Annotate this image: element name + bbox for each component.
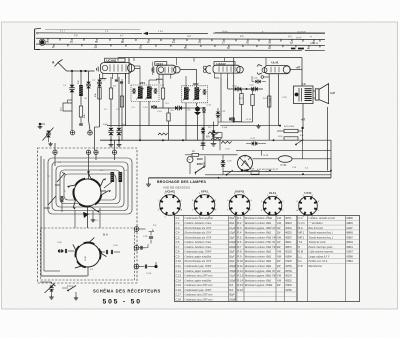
svg-text:Resistance carbone 10kΩ: Resistance carbone 10kΩ [244, 279, 271, 282]
svg-text:45304: 45304 [346, 242, 353, 244]
AC mains source symbol [187, 157, 193, 163]
antenna terminal socket 1 [70, 130, 75, 135]
dial ticks row 2 [53, 44, 55, 46]
svg-text:Transfo moyenne freq. 1: Transfo moyenne freq. 1 [309, 232, 334, 235]
svg-text:Cadre antenne moyenne: Cadre antenne moyenne [309, 251, 335, 254]
T.A bottom wire down [302, 104, 304, 129]
svg-text:Condensat. mica 250V serv.: Condensat. mica 250V serv. [185, 294, 214, 297]
cap C32 right of S2 [105, 250, 107, 254]
svg-text:5: 5 [209, 193, 210, 195]
UCH42 pin ticks [111, 73, 113, 79]
svg-text:R.11: R.11 [238, 264, 244, 268]
svg-text:100pF: 100pF [229, 299, 236, 301]
MF1 tuning arrows [137, 88, 144, 100]
svg-text:0,1µF: 0,1µF [229, 228, 236, 230]
svg-text:UY41: UY41 [281, 164, 288, 167]
tone switch contact [68, 286, 76, 291]
svg-text:20µF: 20µF [229, 223, 235, 225]
ground under C16 [118, 143, 120, 145]
wire below trimmer [71, 92, 73, 103]
table row rules [175, 219, 297, 221]
svg-text:60V: 60V [206, 137, 211, 139]
junction dots right [279, 125, 281, 127]
svg-text:Fusible sect. 0,5 A: Fusible sect. 0,5 A [308, 260, 328, 263]
tube UF41 [157, 65, 176, 74]
parts list table frame [175, 216, 360, 302]
svg-text:44780: 44780 [285, 290, 292, 292]
trimmer capacitor CA antenna [70, 85, 75, 88]
MF2 primary coil [184, 87, 189, 99]
svg-text:C.16: C.16 [176, 288, 182, 292]
svg-text:Bloc d'accord: Bloc d'accord [309, 227, 324, 230]
top HT bus [118, 57, 302, 59]
table C column entries [176, 216, 293, 301]
svg-text:47804: 47804 [285, 285, 292, 287]
svg-text:42126: 42126 [285, 252, 292, 254]
UL41 cathode and screen wires [268, 74, 270, 141]
svg-text:Condensateur pap. 1500V: Condensateur pap. 1500V [185, 265, 212, 268]
long vertical pair left of MF1 [121, 84, 123, 140]
S1 contact arcs [95, 195, 101, 205]
svg-text:C.8: C.8 [176, 250, 181, 254]
S1 lower wires [87, 206, 89, 228]
svg-text:R.1: R.1 [238, 216, 243, 220]
tube UL41 [264, 66, 290, 74]
svg-text:Electrochimique alu 150V: Electrochimique alu 150V [184, 260, 212, 263]
speaker wires [313, 90, 315, 92]
svg-text:MF1: MF1 [140, 81, 146, 85]
svg-text:" " oscillateur: " " oscillateur [309, 222, 323, 225]
tuner top terminal 3 [94, 150, 98, 154]
svg-text:220V: 220V [197, 162, 203, 166]
AVC line wire [218, 121, 242, 123]
svg-text:R.6: R.6 [238, 240, 243, 244]
diode plate arc UAF42 [206, 66, 211, 74]
svg-text:Resistance bobinée 150Ω 1W: Resistance bobinée 150Ω 1W [244, 241, 276, 244]
svg-text:5: 5 [282, 210, 283, 212]
tube UAF42 [213, 65, 240, 73]
cap C21 [216, 111, 220, 113]
svg-text:+HT: +HT [296, 66, 301, 69]
svg-text:43386: 43386 [346, 256, 353, 258]
resistor R16 [284, 137, 298, 140]
svg-text:C.5: C.5 [176, 235, 181, 239]
detector caps C24 C25 to output grid [228, 88, 263, 90]
svg-text:46924: 46924 [285, 223, 292, 225]
svg-text:0,1µF: 0,1µF [229, 276, 236, 278]
svg-text:R.4: R.4 [238, 231, 243, 235]
terminal riser wires [54, 143, 56, 150]
svg-text:6: 6 [267, 195, 268, 197]
svg-text:200pF: 200pF [229, 266, 236, 268]
svg-text:C.V.1: C.V.1 [299, 221, 306, 225]
MF1 primary coil [138, 87, 143, 99]
svg-text:Condens. tubulaire céram.: Condens. tubulaire céram. [185, 222, 212, 225]
svg-text:H.P: H.P [299, 264, 304, 268]
svg-text:C.9: C.9 [176, 254, 181, 258]
ground R13 [258, 124, 260, 126]
svg-text:Resistance carbone 10kΩ: Resistance carbone 10kΩ [244, 222, 271, 225]
svg-text:49134: 49134 [285, 276, 292, 278]
svg-text:Resistance carbone 47kΩ ½W: Resistance carbone 47kΩ ½W [244, 236, 277, 239]
svg-text:R.12: R.12 [238, 269, 244, 273]
tuner top terminal 2 [86, 150, 90, 154]
resistor R9 diagonal zigzag [208, 132, 219, 134]
svg-text:45552: 45552 [285, 280, 292, 282]
UF41 anode wire to MF2 [180, 68, 196, 70]
svg-text:44800: 44800 [346, 218, 353, 220]
svg-text:Condens. tubulaire céram.: Condens. tubulaire céram. [185, 246, 212, 249]
svg-text:C.2: C.2 [176, 221, 181, 225]
chassis tap symbol [202, 146, 204, 151]
antenna A [55, 60, 67, 72]
IF transformer MF1 box [131, 85, 159, 102]
svg-text:BROCHAGE DES LAMPES: BROCHAGE DES LAMPES [157, 180, 207, 184]
ground tone [75, 292, 77, 296]
svg-text:5 1 7: 5 1 7 [60, 31, 66, 33]
svg-text:25µF: 25µF [229, 252, 235, 254]
B.A section divider box [41, 228, 135, 280]
UL41 anode wire +HT [290, 69, 302, 71]
svg-text:505 - 50: 505 - 50 [103, 299, 142, 306]
bus wire y125 [107, 125, 218, 127]
svg-text:Resistance agglom. 1MΩ ½W: Resistance agglom. 1MΩ ½W [244, 227, 276, 230]
pickup terminal P.U.2 [134, 245, 139, 250]
detector node dot [233, 120, 235, 122]
resistor R4 zigzag [158, 133, 168, 135]
svg-text:E T: E T [120, 35, 124, 37]
svg-text:4 6 8: 4 6 8 [158, 31, 164, 33]
svg-text:P.U: P.U [153, 225, 157, 227]
svg-text:G.O: G.O [187, 36, 191, 38]
svg-text:46572: 46572 [285, 247, 292, 249]
svg-text:50µF: 50µF [246, 171, 252, 173]
dial pointer [143, 32, 148, 35]
svg-text:48945: 48945 [346, 233, 353, 235]
svg-text:R.16: R.16 [238, 288, 244, 292]
svg-text:47320: 47320 [285, 261, 292, 263]
svg-text:5: 5 [199, 193, 200, 195]
svg-text:Haut Parleur: Haut Parleur [308, 265, 323, 268]
svg-text:3: 3 [312, 195, 313, 197]
dropper resistor on line [251, 171, 259, 174]
svg-text:Transfo moyenne freq. 2: Transfo moyenne freq. 2 [309, 236, 334, 239]
right feed vertical [327, 107, 329, 171]
trimmer cap T1 [60, 196, 64, 198]
grid leak resistor 40k [79, 106, 82, 117]
cap C22 dark [201, 128, 205, 130]
svg-text:R.3: R.3 [238, 226, 243, 230]
tube UF41 label [155, 62, 167, 66]
svg-text:44822: 44822 [346, 223, 353, 225]
svg-text:25µF: 25µF [229, 261, 235, 263]
tuning dial scale [35, 28, 325, 51]
svg-text:47864: 47864 [346, 261, 353, 263]
pickup terminal P.U.1 [134, 227, 139, 232]
svg-text:Resistance carbone 10kΩ: Resistance carbone 10kΩ [244, 232, 271, 235]
component value labels [47, 78, 309, 272]
cathode resistor R5 under UF41 [161, 88, 164, 99]
volume control potentiometer [45, 284, 56, 294]
line cap C30 [221, 160, 225, 162]
tuner unit outer box [38, 148, 138, 283]
UF41 pin ticks and wires [158, 74, 160, 78]
tube UCH42 [101, 63, 132, 74]
svg-text:1: 1 [215, 200, 216, 202]
svg-text:Condensat. mica 250V serv.: Condensat. mica 250V serv. [185, 275, 214, 278]
svg-text:25µF: 25µF [229, 237, 235, 239]
svg-text:48353: 48353 [285, 233, 292, 235]
svg-text:H.P: H.P [331, 91, 336, 95]
wire from tuner box bottom [40, 281, 52, 283]
svg-text:Potent. interrupt. gener.: Potent. interrupt. gener. [308, 246, 334, 249]
dial second line [36, 32, 142, 34]
svg-text:3: 3 [227, 210, 228, 212]
svg-text:UF41: UF41 [201, 190, 208, 194]
svg-text:B E: B E [240, 36, 244, 38]
wire tube top [223, 154, 238, 156]
svg-text:43987: 43987 [346, 237, 353, 239]
grid wire with capacitor C2 [88, 71, 90, 84]
cap on PU2 [140, 246, 142, 250]
dial left bracket [34, 29, 36, 50]
svg-text:A.C: A.C [60, 107, 63, 111]
MF2 secondary coil [195, 87, 200, 99]
svg-text:~: ~ [188, 158, 190, 162]
volume potentiometer P1 [195, 107, 200, 112]
UL41 grid fork [257, 65, 262, 75]
svg-text:Electrochimique alu 150V: Electrochimique alu 150V [184, 227, 212, 230]
svg-text:O.C: O.C [288, 36, 292, 38]
svg-text:Resistance carbone 10kΩ: Resistance carbone 10kΩ [244, 251, 271, 254]
dial right block marks [291, 48, 296, 50]
wire right branch [80, 71, 82, 85]
resistor R11 zigzag [221, 141, 232, 143]
svg-text:C.13: C.13 [176, 274, 182, 278]
svg-text:42341: 42341 [285, 228, 292, 230]
svg-text:0,5µF: 0,5µF [229, 233, 236, 235]
svg-text:P.O: P.O [74, 35, 78, 37]
svg-text:R.10: R.10 [238, 259, 244, 263]
svg-text:R.2: R.2 [238, 221, 243, 225]
svg-text:E.M: E.M [299, 250, 304, 254]
svg-text:UCH42: UCH42 [106, 59, 116, 63]
svg-text:100pF: 100pF [229, 242, 236, 244]
svg-text:R.14: R.14 [238, 278, 244, 282]
padder trimmer arrows left [55, 172, 66, 185]
dark wedge below S1 [83, 212, 89, 218]
paper texture [0, 0, 1, 1]
svg-text:Resistance carbone 10kΩ: Resistance carbone 10kΩ [244, 260, 271, 263]
svg-text:C.18: C.18 [176, 297, 182, 301]
svg-text:5nF: 5nF [229, 290, 234, 292]
MF2 trimmers [203, 89, 206, 91]
loudspeaker H.P [315, 89, 319, 100]
cap C.V.3 on PU3 [144, 265, 146, 269]
svg-text:Condensateur mica argenté: Condensateur mica argenté [185, 217, 214, 220]
bus to power bridge [220, 139, 331, 141]
svg-text:R.13: R.13 [238, 274, 244, 278]
svg-text:C.12: C.12 [176, 269, 182, 273]
resistor R12 vertical [241, 89, 243, 94]
svg-text:3: 3 [250, 210, 251, 212]
coupling electrolytic C19 [190, 107, 204, 109]
resistor R10 diagonal zigzag [211, 138, 222, 140]
resistor R6 vertical [168, 108, 170, 113]
svg-text:R.15 470k: R.15 470k [284, 126, 295, 128]
svg-text:GCM: GCM [85, 256, 87, 261]
cap C31 left of S2 [64, 249, 66, 253]
svg-text:41067: 41067 [346, 252, 353, 254]
svg-text:C.17: C.17 [176, 293, 182, 297]
UL41 cathode resistor [268, 96, 271, 107]
coil L3 hatched [111, 172, 115, 182]
UCH42 cathode bar [102, 73, 104, 78]
svg-text:470pF: 470pF [229, 271, 236, 273]
svg-text:49011: 49011 [285, 242, 292, 244]
MF1 secondary coil [147, 87, 152, 99]
svg-text:MF.2: MF.2 [299, 235, 305, 239]
coupling cap C23 [229, 117, 231, 121]
wire node down left branch [71, 71, 73, 85]
AVC dropper vertical [213, 122, 215, 132]
resistor R3 on oscillator line [120, 96, 123, 107]
mains switch [196, 167, 204, 173]
svg-text:C.1: C.1 [176, 216, 181, 220]
UY41 pin blobs [241, 169, 243, 172]
svg-text:Transfo de sortie: Transfo de sortie [309, 241, 327, 244]
svg-text:B.A: B.A [103, 233, 108, 237]
UF41 cathode bar [156, 78, 163, 80]
top bus risers [117, 58, 119, 61]
output transformer T.A [294, 86, 314, 104]
svg-text:50pF: 50pF [229, 295, 235, 297]
svg-text:m: m [310, 36, 312, 38]
negative feedback wire [220, 125, 280, 127]
svg-text:1: 1 [244, 193, 245, 195]
svg-text:Resistance agglom. 20kΩ 1W: Resistance agglom. 20kΩ 1W [244, 270, 276, 273]
svg-text:R.5: R.5 [238, 235, 243, 239]
screen cap C26 [255, 80, 257, 84]
ground below C22 [202, 134, 204, 142]
main bottom bus [100, 139, 220, 141]
UAF42 pin wires [213, 73, 215, 78]
svg-text:6: 6 [303, 216, 304, 218]
resistor R13 vertical [252, 89, 254, 95]
svg-text:Condens. variable accord: Condens. variable accord [309, 217, 336, 220]
svg-text:C.10: C.10 [176, 259, 182, 263]
svg-text:T.A: T.A [299, 240, 303, 244]
tube UCH42 label [105, 58, 125, 62]
svg-text:B.A: B.A [299, 226, 303, 230]
svg-text:Lampe cadran 6,3 V: Lampe cadran 6,3 V [308, 255, 330, 258]
svg-text:Electrochimique alu 150V: Electrochimique alu 150V [184, 236, 212, 239]
tube UAF42 label [214, 62, 235, 66]
svg-text:C.11: C.11 [176, 264, 182, 268]
feed wire to rectifier line [302, 144, 304, 159]
dial tick line 2 [36, 44, 325, 45]
svg-text:+HT: +HT [301, 119, 306, 122]
svg-text:MF.1: MF.1 [299, 231, 305, 235]
svg-text:Condens. papier metallisé: Condens. papier metallisé [185, 279, 213, 282]
svg-text:C.6: C.6 [176, 240, 181, 244]
svg-text:C.7: C.7 [176, 245, 181, 249]
band switch S1 rotor [74, 179, 101, 206]
svg-text:UL41: UL41 [271, 60, 278, 64]
wires below MF2 [185, 103, 187, 140]
wires below MF1 [139, 101, 141, 140]
junction dots power lines [218, 177, 220, 179]
svg-text:49711: 49711 [285, 218, 292, 220]
band switch S2 rotor [76, 243, 100, 267]
svg-text:Condens. papier metallisé: Condens. papier metallisé [185, 255, 213, 258]
svg-text:P.M: P.M [78, 80, 80, 84]
wire UCH42 anode to MF1 [135, 68, 140, 70]
svg-text:Condens. tubulaire céram.: Condens. tubulaire céram. [185, 241, 212, 244]
svg-text:MF2: MF2 [193, 82, 199, 86]
svg-text:Resistance agglom. 330kΩ: Resistance agglom. 330kΩ [244, 284, 272, 287]
svg-text:200pF: 200pF [229, 247, 236, 249]
svg-text:19 25: 19 25 [296, 37, 302, 39]
cathode bypass cap [151, 105, 153, 109]
svg-text:100pF: 100pF [229, 280, 236, 282]
table column rules [183, 216, 185, 302]
UF41 left bars [153, 67, 155, 74]
terminal left ground [40, 123, 45, 125]
svg-text:1: 1 [158, 200, 159, 202]
electrolytic C14 on AVC line [155, 107, 190, 109]
svg-text:8: 8 [318, 201, 319, 203]
heater chain top wire [236, 149, 331, 151]
dial lamp [40, 40, 44, 44]
power wiring verticals [330, 140, 332, 178]
ground left of brochage [148, 182, 150, 184]
wire antenna to grid [67, 70, 95, 72]
svg-text:R.8: R.8 [238, 250, 243, 254]
svg-text:43753: 43753 [285, 266, 292, 268]
dial ticks row 1 [47, 38, 49, 40]
wire left branch to terminal [71, 111, 73, 130]
ground under potentiometer [51, 295, 53, 297]
svg-text:5: 5 [192, 210, 193, 212]
svg-text:Condensat. mica 250V serv.: Condensat. mica 250V serv. [185, 298, 214, 301]
svg-text:Resistance agglom. 68kΩ ½W: Resistance agglom. 68kΩ ½W [244, 275, 277, 278]
oscillator vertical wire [118, 77, 120, 127]
electrolytic filter cap C15 [109, 128, 114, 131]
antenna terminal socket 2 [88, 131, 93, 136]
trimmer arrows right [100, 181, 113, 191]
rectifier tube UY41 circle [238, 156, 253, 171]
svg-text:SCHÉMA DES RÉCEPTEURS: SCHÉMA DES RÉCEPTEURS [93, 289, 161, 294]
svg-text:41994: 41994 [285, 256, 292, 258]
svg-text:3: 3 [261, 201, 262, 203]
power wiring horizontals [223, 170, 331, 172]
svg-text:Condensateur pap. 1500V: Condensateur pap. 1500V [185, 289, 212, 292]
svg-text:25µF: 25µF [229, 218, 235, 220]
tuner top terminal 4 [112, 150, 116, 154]
svg-text:L.L: L.L [299, 254, 303, 258]
pickup terminal P.U.3 [134, 264, 139, 269]
svg-text:45619: 45619 [346, 247, 353, 249]
svg-text:Resistance carbone 10kΩ: Resistance carbone 10kΩ [244, 265, 271, 268]
svg-text:Condensat. mica 250V serv.: Condensat. mica 250V serv. [185, 284, 214, 287]
svg-text:P: P [299, 245, 301, 249]
svg-text:R.19: R.19 [264, 155, 269, 157]
ground stub below S1 [92, 211, 94, 218]
svg-text:41197: 41197 [346, 228, 353, 230]
antenna cap cluster [149, 236, 153, 238]
S1 wiper arrows [101, 191, 108, 195]
